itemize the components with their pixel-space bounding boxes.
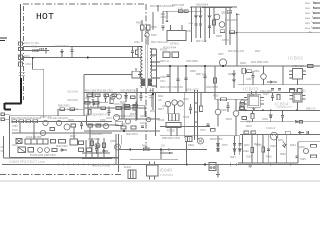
svg-text:R638 C627 1000u/35v: R638 C627 1000u/35v xyxy=(160,87,184,89)
resistor R641 xyxy=(131,126,136,129)
wire drop x136 xyxy=(135,101,137,121)
svg-text:R6D5: R6D5 xyxy=(68,120,75,122)
resistor R606 xyxy=(172,52,179,58)
svg-text:R696 C634 R697 4.7k: R696 C634 R697 4.7k xyxy=(86,115,110,117)
svg-text:R642: R642 xyxy=(158,96,164,98)
resistor R628 xyxy=(51,140,56,144)
wire box drop a xyxy=(19,123,21,133)
capacitor C650 xyxy=(227,102,230,112)
resistor R6B1 xyxy=(112,94,117,97)
resistor R6B3 xyxy=(89,110,92,115)
svg-text:IC640: IC640 xyxy=(248,95,255,97)
svg-text:HOT: HOT xyxy=(36,11,54,22)
wire primary bottom drop xyxy=(136,88,138,120)
ground G1 xyxy=(248,165,253,168)
svg-text:PC601 R644: PC601 R644 xyxy=(163,48,177,50)
wire rail y136 xyxy=(160,135,240,137)
resistor R6B5 xyxy=(125,105,130,108)
svg-text:R801: R801 xyxy=(305,3,311,5)
resistor R629 xyxy=(59,140,66,144)
svg-text:D603 D604: D603 D604 xyxy=(196,4,209,7)
svg-text:C6D3 R6D4: C6D3 R6D4 xyxy=(90,134,103,136)
wire tap c xyxy=(149,88,151,93)
wire rail y93 xyxy=(246,92,303,94)
wire drop x186 xyxy=(185,66,187,92)
svg-text:R806: R806 xyxy=(305,28,311,30)
hot/cold boundary right dash-dot xyxy=(145,4,147,45)
capacitor C6B2 xyxy=(140,93,143,102)
junction node K xyxy=(160,149,162,151)
wire long bottom rail xyxy=(2,164,320,166)
svg-text:P-ON: P-ON xyxy=(12,130,18,132)
svg-text:C6E5: C6E5 xyxy=(300,159,306,161)
svg-text:R6E3: R6E3 xyxy=(280,154,286,156)
resistor R694 xyxy=(85,102,90,105)
motor M602 xyxy=(198,138,204,144)
wire mid rail y119 xyxy=(119,118,161,120)
capacitor C650b xyxy=(267,149,270,150)
wire relay top right xyxy=(181,25,183,31)
wire relay top left xyxy=(170,25,172,31)
svg-text:PC630: PC630 xyxy=(167,129,175,133)
svg-text:R607 1k: R607 1k xyxy=(160,60,170,63)
diode D677 xyxy=(233,149,236,151)
capacitor C651 xyxy=(296,156,299,157)
wire drop x234.5 xyxy=(234,136,236,155)
resistor R618 xyxy=(116,107,121,110)
IC U630 box xyxy=(169,114,180,121)
svg-text:R6E1: R6E1 xyxy=(254,144,260,146)
heater supply row xyxy=(160,136,290,177)
junction node H2 xyxy=(262,110,264,112)
transistor Q624 xyxy=(103,123,108,128)
resistor R624 xyxy=(50,128,55,131)
wire vert x92 xyxy=(91,138,93,158)
resistor R661 xyxy=(251,114,254,119)
transistor Q617 xyxy=(126,119,131,124)
junction node N xyxy=(185,65,187,67)
wire drop x174 xyxy=(174,105,176,114)
wire drop x245 xyxy=(243,74,245,85)
svg-text:C6E0: C6E0 xyxy=(243,151,249,153)
wire drop x218 xyxy=(217,165,219,175)
junction node Q2 xyxy=(125,92,127,94)
capacitor C621 xyxy=(79,141,84,145)
junction node G xyxy=(152,93,154,95)
transformer T601 xyxy=(138,45,160,88)
transistor Q665 xyxy=(115,144,121,150)
svg-text:R601: R601 xyxy=(31,45,38,49)
transistor Q623 xyxy=(40,130,45,135)
wire drop primary return xyxy=(83,75,85,117)
svg-text:T601: T601 xyxy=(150,56,156,58)
svg-text:D6E4: D6E4 xyxy=(290,145,296,147)
svg-text:Q650: Q650 xyxy=(221,110,227,112)
capacitor C653 xyxy=(207,124,210,125)
wire drop x205 xyxy=(204,66,206,92)
wire mid vertical c xyxy=(184,92,186,138)
resistor R631 xyxy=(52,149,57,152)
additional detail pass xyxy=(58,47,255,130)
diode D670 xyxy=(282,142,286,149)
svg-text:C604 D601: C604 D601 xyxy=(55,44,69,48)
resistor R605b xyxy=(220,30,225,33)
svg-text:C605: C605 xyxy=(151,26,157,29)
error amp cluster xyxy=(165,92,202,136)
transistor Q666 xyxy=(114,115,120,121)
capacitor C629 xyxy=(271,89,274,90)
svg-text:D614 FMG-22S: D614 FMG-22S xyxy=(228,51,245,53)
svg-text:Q601: Q601 xyxy=(221,12,228,15)
svg-text:D6C5: D6C5 xyxy=(120,102,127,104)
capacitor C631 xyxy=(278,89,281,90)
wire stub y101 xyxy=(84,102,108,104)
line filter L601 xyxy=(40,48,44,50)
resistor R665 xyxy=(244,131,249,134)
wire y14 stub xyxy=(237,13,240,15)
bold chassis boundary stair xyxy=(5,78,22,110)
resistor R620 xyxy=(12,120,17,123)
capacitor C618 xyxy=(177,79,180,80)
wire secondary main rail xyxy=(150,65,320,67)
zener D676 xyxy=(217,149,220,151)
svg-text:ICB02: ICB02 xyxy=(288,56,303,62)
junction node Q1 xyxy=(92,92,94,94)
T601 core xyxy=(144,45,146,88)
svg-text:M6E6: M6E6 xyxy=(188,145,195,147)
svg-text:R637 0.22: R637 0.22 xyxy=(196,41,207,43)
wire top bus xyxy=(202,7,232,9)
capacitor C640 xyxy=(271,93,274,102)
bottom border gray line xyxy=(0,180,320,182)
capacitor C619 xyxy=(204,76,207,77)
transistor Q692 xyxy=(110,95,115,100)
svg-text:C60A: C60A xyxy=(134,41,140,44)
svg-text:ICB05 PROTECT Line: ICB05 PROTECT Line xyxy=(9,160,45,164)
wire drop x252 xyxy=(251,134,253,163)
mains line L xyxy=(20,4,22,103)
wire tap b xyxy=(155,93,157,137)
svg-text:F601 T3.15A: F601 T3.15A xyxy=(24,41,39,45)
wire drop x268 xyxy=(268,134,270,163)
T601 secondary winding xyxy=(150,49,152,86)
junction node A xyxy=(32,57,34,59)
resistor R615 xyxy=(87,94,92,97)
mid regulator cluster xyxy=(84,93,246,132)
ground G2 xyxy=(216,175,220,178)
svg-text:R629 C621: R629 C621 xyxy=(56,146,68,148)
top cluster extra verticals xyxy=(157,5,159,11)
ladder rung c xyxy=(195,121,198,123)
wire drop x202 xyxy=(200,92,202,106)
wire stub y153 xyxy=(160,152,173,154)
transistor Q618 xyxy=(146,117,150,121)
wire mid rail y108 xyxy=(84,107,145,109)
junction node L xyxy=(204,164,206,166)
capacitor C603 xyxy=(71,47,74,58)
capacitor C611 xyxy=(298,89,303,93)
wire drop x257 xyxy=(256,134,258,163)
wire drop x283 xyxy=(282,66,284,85)
wire drop x242 xyxy=(242,134,244,163)
wire drop x88 xyxy=(87,96,89,117)
wire primary return xyxy=(84,74,132,76)
svg-text:D609: D609 xyxy=(240,62,246,65)
svg-text:C628 R639: C628 R639 xyxy=(206,87,218,89)
capacitor C608 xyxy=(185,78,188,79)
optocoupler U621 xyxy=(18,147,26,153)
transistor Q660 xyxy=(303,148,308,153)
svg-text:470u: 470u xyxy=(160,80,166,83)
svg-text:Q665: Q665 xyxy=(110,141,116,143)
hot/cold boundary bottom dash-dot xyxy=(0,174,122,176)
resistor R605 on long rail xyxy=(230,31,235,34)
fuse F602 on rail xyxy=(308,65,314,68)
svg-text:R6A2: R6A2 xyxy=(266,156,272,159)
capacitor C630 xyxy=(189,104,192,114)
resistor R625 xyxy=(71,124,76,127)
top startup cluster xyxy=(163,6,240,45)
wire top cluster feed xyxy=(163,10,202,12)
junction node J xyxy=(130,149,132,151)
svg-text:R650: R650 xyxy=(213,96,219,98)
wire tap a xyxy=(151,94,153,107)
transistor Q667 xyxy=(64,124,70,130)
wire control rail 1 xyxy=(12,121,112,123)
wire vert x104 xyxy=(103,138,105,158)
wire rail y99 xyxy=(215,98,248,100)
wire vert x86 xyxy=(85,140,87,159)
resistor R653 xyxy=(211,129,215,132)
fuse F601 xyxy=(19,42,23,45)
text speck rows xyxy=(86,41,306,168)
capacitor C613 primary xyxy=(131,47,134,58)
wire drop x58 xyxy=(57,109,59,116)
wire mid vertical pair b xyxy=(197,90,199,140)
capacitor C645 xyxy=(307,131,308,134)
resistor R613 primary xyxy=(136,50,139,55)
diode D615 xyxy=(92,103,98,105)
wire drop x218b xyxy=(217,115,219,127)
T601 pin wires left xyxy=(138,46,143,48)
wire drop x297 icb xyxy=(297,79,299,85)
svg-text:C6E2: C6E2 xyxy=(270,146,276,148)
resistor R616 xyxy=(95,94,100,97)
transistor Q621 xyxy=(56,120,61,125)
junction node C1 xyxy=(191,6,193,8)
T601 primary winding xyxy=(141,47,143,88)
junction node P1 xyxy=(186,164,188,166)
secondary rectifier cluster xyxy=(163,52,235,99)
resistor R640 xyxy=(121,126,126,129)
svg-text:D611 R646 C632: D611 R646 C632 xyxy=(251,62,269,64)
capacitor C6B0 xyxy=(92,93,95,103)
transistor Q626 xyxy=(45,148,50,153)
wire drop x171 low xyxy=(170,128,172,136)
resistor R610 xyxy=(247,70,252,73)
bottom mid cluster xyxy=(82,135,171,180)
wire rail icb03 xyxy=(238,84,320,86)
wire drop x236 xyxy=(235,99,237,110)
wire drop x263 xyxy=(263,66,265,74)
svg-text:D606: D606 xyxy=(228,73,234,76)
transistor Q603 xyxy=(219,22,225,28)
crystal X620 xyxy=(16,139,22,144)
resistor R681 xyxy=(103,143,106,148)
resistor R6B4 xyxy=(131,96,136,99)
transistor Q693 xyxy=(117,94,122,99)
capacitor C601 xyxy=(19,62,23,66)
svg-text:R612 C624 1200: R612 C624 1200 xyxy=(151,42,169,44)
resistor R667 xyxy=(285,131,290,134)
svg-text:2A: 2A xyxy=(1,146,4,149)
resistor R680 xyxy=(91,141,94,146)
svg-text:C612 100u: C612 100u xyxy=(260,90,272,93)
diode bank vertical comb xyxy=(192,7,216,42)
svg-text:R6D6 C6D7: R6D6 C6D7 xyxy=(40,117,53,119)
svg-text:R632: R632 xyxy=(70,136,76,138)
diode D620 xyxy=(60,149,67,151)
wire primary aux vertical xyxy=(152,12,154,30)
svg-text:R602: R602 xyxy=(136,22,142,25)
transistor Q668 xyxy=(95,143,100,148)
svg-text:5V: 5V xyxy=(161,151,164,153)
transistor Q625 xyxy=(38,148,43,153)
IC U641 box xyxy=(290,90,306,111)
diode D6B0 xyxy=(125,93,128,103)
svg-text:R643: R643 xyxy=(158,109,164,111)
svg-text:R690 R691: R690 R691 xyxy=(58,106,70,108)
svg-text:2SD2499: 2SD2499 xyxy=(67,98,78,102)
resistor R614 xyxy=(214,78,217,83)
wire fuse branch xyxy=(24,50,50,52)
resistor R670 xyxy=(251,148,254,153)
wire drop x124 xyxy=(123,103,125,119)
fuse holder mark xyxy=(19,48,23,51)
junction node F xyxy=(123,130,125,132)
left edge specks xyxy=(1,146,4,153)
terminal ACL arrow xyxy=(165,19,168,22)
svg-text:IC630: IC630 xyxy=(158,120,165,122)
wire mid drop x145 xyxy=(144,106,146,117)
wire jog to control xyxy=(33,58,44,118)
mains line N dash-dot xyxy=(23,6,25,100)
capacitor C671 xyxy=(238,144,241,145)
wire double vertical right of box b xyxy=(118,134,120,172)
wire rail AC top xyxy=(24,46,141,48)
svg-text:R6C3: R6C3 xyxy=(130,114,137,116)
svg-text:C630: C630 xyxy=(183,99,189,101)
wire bottom-left rail y153 xyxy=(82,152,110,154)
svg-text:9V: 9V xyxy=(313,107,316,111)
svg-text:R803: R803 xyxy=(305,13,311,15)
svg-text:D610 R635 C625 R636: D610 R635 C625 R636 xyxy=(150,6,175,8)
wire secondary drop b xyxy=(152,88,154,110)
transistor Q652 xyxy=(240,100,244,104)
wire bottom-left rail y158.8 xyxy=(82,158,112,160)
T601 pin wires right xyxy=(152,48,157,50)
svg-text:R804: R804 xyxy=(305,18,311,20)
resistor R652 xyxy=(242,117,247,120)
varistor Z601 xyxy=(19,55,23,60)
svg-text:R608: R608 xyxy=(190,70,196,73)
resistor R660 xyxy=(277,95,280,100)
wire drop x178 xyxy=(177,66,179,92)
transistor Q651 xyxy=(233,111,239,117)
svg-text:C655 R656: C655 R656 xyxy=(186,61,198,63)
control board cluster xyxy=(12,120,112,154)
capacitor C670 xyxy=(233,144,236,145)
junction node E xyxy=(222,65,224,67)
zener D675 xyxy=(217,144,220,146)
wire drop x263 xyxy=(262,134,264,163)
transistor Q630 xyxy=(165,101,170,106)
wire rail y123 xyxy=(240,121,320,123)
resistor R622 xyxy=(26,120,31,123)
svg-text:C626: C626 xyxy=(186,31,192,33)
resistor R682 on rail xyxy=(144,148,150,151)
wire aux rail y109 xyxy=(58,108,84,110)
capacitor C641 xyxy=(281,110,284,121)
junction node O xyxy=(204,65,206,67)
winding ticks secondary xyxy=(149,90,153,98)
bottom right drops xyxy=(243,134,317,167)
svg-text:R802: R802 xyxy=(305,8,311,10)
resistor R632 xyxy=(70,139,78,145)
svg-text:C609: C609 xyxy=(160,76,166,79)
resistor R6B0 xyxy=(104,94,109,97)
wire mid stub y105.8 xyxy=(122,105,145,107)
junction node C2 xyxy=(204,6,206,8)
AC inlet mark xyxy=(0,38,7,41)
arrow feed xyxy=(168,148,171,151)
wire ground rail bottom right xyxy=(238,162,298,164)
diode D662 on rail xyxy=(295,120,302,123)
resistor R6B2 xyxy=(101,107,106,110)
optocoupler PC630 box xyxy=(166,123,181,128)
resistor R621 xyxy=(19,120,24,123)
svg-text:RL602: RL602 xyxy=(124,167,131,169)
ladder rung a xyxy=(195,102,198,104)
ICB02 area xyxy=(242,65,313,93)
control box inner bottom xyxy=(4,157,119,159)
text speck rows 3 xyxy=(188,144,306,161)
resistor R609 xyxy=(242,68,245,74)
resistor R627 xyxy=(96,124,101,127)
wire drop x161 xyxy=(160,150,162,160)
regulator U602 xyxy=(289,69,306,80)
diode D608 xyxy=(267,81,277,85)
svg-text:D615: D615 xyxy=(85,98,91,100)
svg-text:R6C9 C6D0: R6C9 C6D0 xyxy=(210,139,223,141)
wire drop x286 xyxy=(286,134,288,163)
svg-text:C640: C640 xyxy=(263,94,269,96)
capacitor C616 xyxy=(133,106,137,111)
svg-text:R6A0 C637 R6A1: R6A0 C637 R6A1 xyxy=(92,165,111,168)
svg-text:R640 R641: R640 R641 xyxy=(126,134,138,136)
wire mid rail y94 xyxy=(84,92,246,94)
small box top right xyxy=(227,10,232,13)
wire rail icb04 out xyxy=(238,109,320,111)
capacitor C6B1 xyxy=(108,107,111,117)
transistor Q650 xyxy=(215,109,221,115)
svg-text:C2SK2545: C2SK2545 xyxy=(225,19,237,22)
wire vert x122 xyxy=(121,135,123,145)
svg-text:DST601: DST601 xyxy=(170,43,179,46)
secondary tap verticals xyxy=(149,12,281,136)
connector CN801 pin column xyxy=(311,2,320,30)
junction node H1 xyxy=(245,110,247,112)
